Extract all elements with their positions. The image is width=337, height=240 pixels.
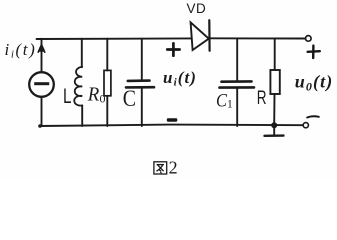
- current source IS: [29, 72, 54, 97]
- svg-text:L: L: [63, 85, 72, 108]
- wire C1 branch top: [236, 38, 238, 81]
- node junction bottom left: [38, 124, 42, 128]
- wire C branch top: [141, 39, 143, 80]
- wire R branch bottom: [273, 94, 275, 125]
- svg-text:C: C: [216, 90, 227, 111]
- svg-text:2: 2: [169, 158, 178, 178]
- wire R0 branch top: [106, 39, 108, 71]
- svg-text:1: 1: [227, 99, 233, 111]
- resistor R0: [104, 70, 111, 95]
- svg-text:VD: VD: [187, 1, 207, 16]
- terminal + (output top): [306, 36, 312, 42]
- resistor R: [270, 70, 279, 94]
- svg-text:ii(t): ii(t): [5, 40, 37, 61]
- terminal - (output bottom): [303, 123, 308, 128]
- wire bottom: [40, 125, 303, 126]
- svg-text:0: 0: [100, 91, 106, 105]
- node junction bottom right: [271, 122, 277, 128]
- wire C1 branch bottom: [236, 88, 238, 126]
- wire top left (source to diode anode): [37, 37, 192, 40]
- label + of u_i: [167, 43, 179, 55]
- capacitor C: [128, 79, 150, 82]
- wire inductor branch bottom: [81, 105, 83, 126]
- wire inductor branch top: [81, 39, 83, 67]
- svg-text:R: R: [257, 88, 267, 109]
- capacitor C1: [222, 80, 252, 83]
- svg-text:C: C: [123, 86, 136, 111]
- label - of output: [307, 116, 319, 117]
- label + of output: [308, 46, 320, 58]
- ground: [273, 128, 275, 135]
- wire C branch bottom: [141, 87, 143, 126]
- inductor L coil: [74, 67, 82, 106]
- svg-text:R: R: [87, 84, 99, 106]
- arrow of i_i(t): [38, 45, 45, 53]
- caption glyph 图: [154, 162, 167, 174]
- wire left branch (current source): [41, 39, 43, 72]
- svg-text:ui(t): ui(t): [163, 68, 197, 89]
- wire R branch top: [274, 38, 276, 70]
- wire R0 branch bottom: [106, 96, 108, 126]
- diode VD: [191, 22, 209, 50]
- label - of u_i: [167, 118, 178, 121]
- wire top right (diode cathode to + terminal): [210, 37, 306, 39]
- svg-text:u0(t): u0(t): [295, 71, 334, 93]
